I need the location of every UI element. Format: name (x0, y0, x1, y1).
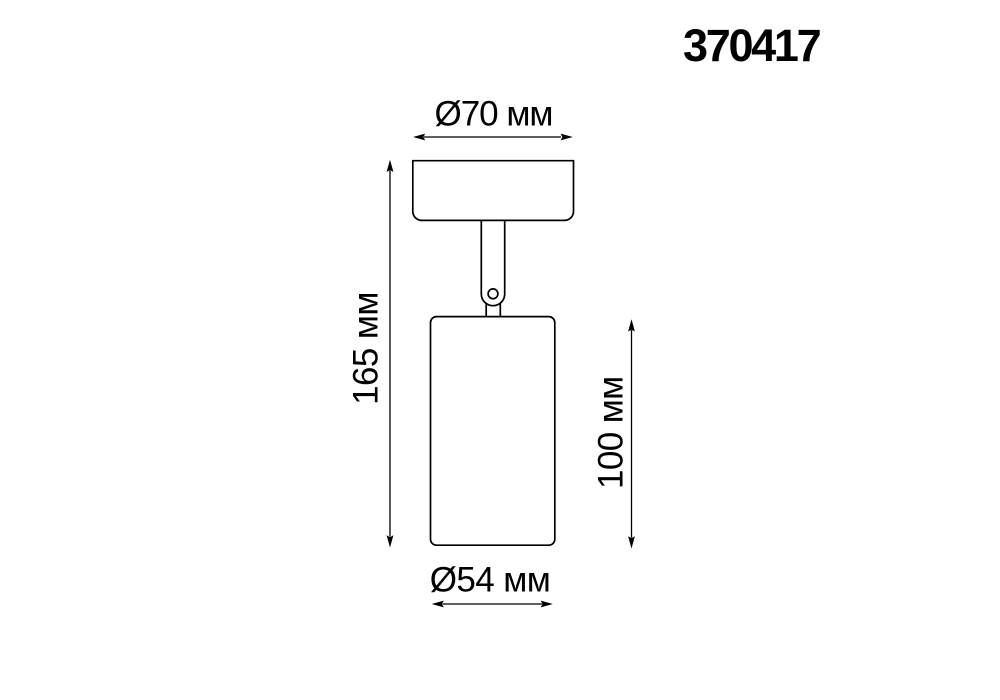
arrowhead left-top (387, 160, 394, 172)
arrowhead top-right (561, 134, 573, 141)
dimension line Ø54 (bottom) (443, 603, 542, 605)
arrowhead bottom-left (432, 601, 444, 608)
arrowhead right-top (628, 319, 635, 331)
svg-text:Ø54 мм: Ø54 мм (430, 561, 550, 600)
dimension line Ø70 (top) (424, 136, 561, 138)
narrow stem (485, 303, 487, 317)
arrowhead left-bottom (387, 535, 394, 547)
pivot hole (488, 289, 498, 299)
svg-text:Ø70 мм: Ø70 мм (434, 95, 552, 134)
arrowhead bottom-right (541, 601, 553, 608)
dimension line 100 мм (right) (631, 330, 633, 538)
arrowhead right-bottom (628, 536, 635, 548)
lamp cylinder body (431, 317, 555, 546)
svg-text:370417: 370417 (683, 20, 821, 71)
swivel arm (wide stem with rounded end) (481, 220, 504, 305)
canopy (ceiling mount) (413, 161, 574, 221)
svg-text:100 мм: 100 мм (591, 376, 630, 489)
svg-text:165 мм: 165 мм (347, 292, 386, 405)
dimension line 165 мм (left) (389, 171, 391, 537)
arrowhead top-left (413, 134, 425, 141)
